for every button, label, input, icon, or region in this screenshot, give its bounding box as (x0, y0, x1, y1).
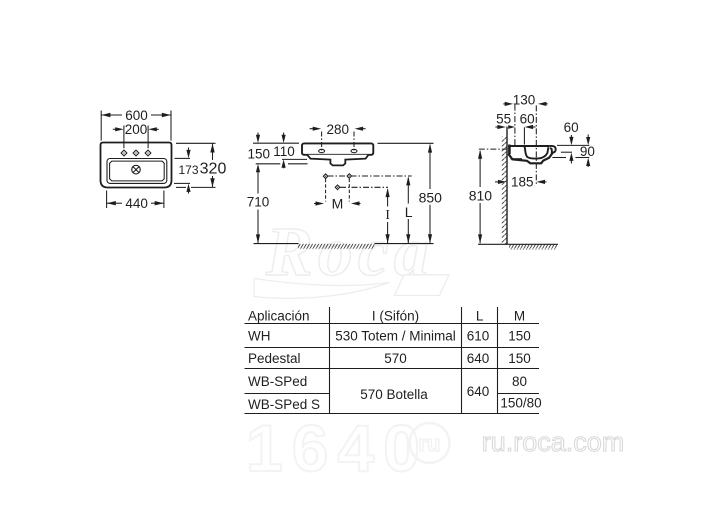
dimension M arrows (outside) (314, 201, 361, 205)
svg-text:L: L (405, 204, 413, 220)
table column line 1 (329, 307, 331, 414)
svg-text:150: 150 (248, 146, 271, 161)
svg-text:570: 570 (384, 351, 407, 366)
ground line left (front) (254, 243, 299, 245)
dimension L line and arrows (406, 176, 410, 243)
svg-text:Aplicación: Aplicación (248, 308, 310, 323)
table column line 2 (461, 307, 463, 414)
dimension 55 arrow (495, 125, 515, 129)
dimension 280 arrows (outside) (310, 127, 366, 131)
svg-text:55: 55 (496, 111, 511, 126)
dimension 90 arrows (586, 135, 590, 168)
dimension 440 extension lines (106, 191, 108, 209)
dimension 600 line and arrows (101, 113, 170, 117)
extension line drain boss bottom (front) (256, 163, 308, 165)
dimension 440 line and arrows (107, 201, 164, 205)
dimension 810 line and arrows (478, 150, 482, 244)
svg-text:80: 80 (512, 374, 527, 389)
watermark Roca wave swoosh (254, 279, 389, 299)
svg-text:530 Totem / Minimal: 530 Totem / Minimal (335, 329, 456, 344)
svg-text:L: L (476, 308, 484, 323)
faucet axis left (front, dash-dot) (321, 132, 323, 153)
svg-text:173: 173 (178, 163, 198, 177)
dimension I line and arrows (386, 188, 390, 243)
extension line apron bottom (front) (282, 158, 307, 160)
svg-text:570 Botella: 570 Botella (360, 387, 428, 402)
table header separator line (245, 323, 540, 325)
svg-text:ru.roca.com: ru.roca.com (482, 427, 625, 457)
basin top band (front) (302, 143, 373, 154)
svg-text:640: 640 (467, 384, 490, 399)
dimension 173 arrows (outside) (186, 148, 190, 194)
svg-text:150: 150 (508, 351, 531, 366)
svg-text:280: 280 (327, 122, 350, 137)
svg-text:WB-SPed S: WB-SPed S (248, 397, 320, 412)
svg-text:440: 440 (125, 196, 148, 211)
axis rear hole (side, dash-dot) (514, 105, 516, 147)
dimension 150 arrows (256, 133, 260, 173)
basin inner rim outer edge (plan) (107, 159, 167, 184)
ground line right (front) (375, 243, 434, 245)
centerline lower (front, dash-dot) (340, 186, 388, 188)
wall hatch (side) (502, 137, 507, 245)
dimension 200 arrows (outside) (113, 127, 159, 131)
svg-text:150/80: 150/80 (500, 395, 541, 410)
table bottom line (245, 413, 540, 415)
basin bowl section curve (side) (524, 146, 548, 158)
extension line bowl bottom (side) (552, 157, 589, 159)
watermark Roca swoosh tip (395, 275, 450, 296)
extension line rim bottom (side) (561, 151, 572, 153)
basin inner rim inner edge (plan) (110, 161, 165, 181)
svg-text:850: 850 (419, 189, 443, 205)
dimension 600 extension lines (100, 111, 102, 141)
connection point left (front) (323, 174, 328, 179)
ground hatch (front) (298, 244, 375, 249)
basin underside outline (side) (508, 153, 552, 163)
table column line 3 (497, 307, 499, 414)
basin deck top line (side) (508, 145, 550, 147)
svg-text:710: 710 (247, 194, 270, 209)
svg-text:ru: ru (419, 431, 441, 456)
extension line bowl rear (side) (523, 127, 525, 144)
wall face line (side) (506, 127, 508, 245)
svg-text:130: 130 (513, 93, 536, 108)
dimension 130 arrows (outside) (503, 102, 548, 106)
svg-text:WB-SPed: WB-SPed (248, 374, 307, 389)
table row line under Pedestal (245, 368, 540, 370)
dimension 110 arrows (282, 133, 286, 169)
basin rear mounting tab (side) (508, 145, 511, 155)
extension line basin top right (front) (378, 142, 434, 144)
dimension 320 extension lines (176, 142, 216, 144)
basin front rim hook (side) (550, 146, 556, 153)
dimension 60 arrow (top) (525, 125, 536, 129)
dimension 173 extension lines (175, 157, 191, 159)
faucet hole right (front) (351, 149, 357, 152)
floor hatch (side) (509, 245, 557, 250)
svg-text:200: 200 (125, 122, 148, 137)
svg-text:600: 600 (125, 108, 148, 123)
connection point middle (front) (335, 185, 340, 190)
extension dashed from left connection point (325, 179, 327, 202)
svg-text:320: 320 (200, 160, 227, 177)
faucet axis right (front, dash-dot) (353, 132, 355, 153)
watermark 1640 logo (246, 411, 450, 485)
centerline upper (front, dash-dot) (328, 175, 412, 177)
dimension 320 line and arrows (210, 144, 214, 188)
faucet hole left (front) (319, 149, 325, 152)
svg-text:610: 610 (467, 329, 490, 344)
connection point right (front) (347, 174, 352, 179)
svg-text:185: 185 (511, 174, 534, 189)
basin outer body (plan) (101, 143, 172, 188)
svg-text:M: M (332, 195, 344, 211)
svg-text:60: 60 (520, 111, 535, 126)
svg-text:Pedestal: Pedestal (248, 351, 301, 366)
extension line basin top left (front) (253, 142, 299, 144)
dimension 185 arrows (outside) (495, 180, 547, 184)
dimension 850 line and arrows (428, 144, 432, 244)
drain hole (plan) (132, 165, 141, 174)
faucet hole center (plan) (133, 150, 139, 156)
svg-text:810: 810 (469, 188, 493, 204)
svg-text:I (Sifón): I (Sifón) (372, 308, 419, 323)
table partial row line under WB-SPed (col M) (498, 393, 540, 395)
axis drain (side, dash-dot) (535, 105, 537, 184)
faucet hole left (plan) (121, 150, 127, 156)
svg-text:WH: WH (248, 329, 271, 344)
table partial row line under WB-SPed (col 1) (245, 393, 330, 395)
watermark Roca logo (265, 214, 434, 291)
extension dashed from right connection point (348, 179, 350, 202)
svg-text:640: 640 (467, 351, 490, 366)
datum line rim level (side, dash-dot) (479, 148, 507, 150)
svg-text:M: M (514, 308, 525, 323)
dimension 200 extension lines (123, 126, 125, 149)
svg-text:150: 150 (508, 329, 531, 344)
svg-text:110: 110 (273, 144, 295, 159)
dimension 710 line and arrows (256, 170, 260, 243)
dimension 60 arrows (right) (569, 135, 573, 164)
svg-text:I: I (385, 207, 390, 222)
table row line under WH (245, 347, 540, 349)
fixing hole bottom line (side) (511, 158, 522, 160)
svg-text:60: 60 (564, 120, 579, 135)
floor line (side) (478, 243, 558, 245)
svg-text:90: 90 (580, 144, 595, 159)
extension line deck top right (side) (557, 144, 589, 146)
svg-text:1640: 1640 (246, 411, 429, 485)
basin apron with drain boss (front) (307, 155, 368, 166)
faucet hole right (plan) (145, 150, 151, 156)
